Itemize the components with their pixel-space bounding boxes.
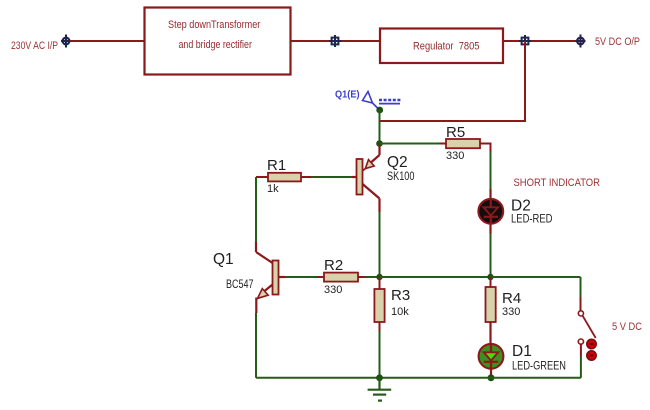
resistor R2	[317, 257, 365, 296]
svg-text:330: 330	[502, 306, 520, 318]
switch SW1	[578, 311, 595, 344]
wire input to transformer box	[70, 40, 144, 42]
label SHORT INDICATOR	[514, 177, 601, 189]
svg-text:R3: R3	[391, 287, 410, 304]
node Q1(E) dot	[376, 107, 383, 114]
resistor R3	[374, 277, 410, 332]
switch branch wire down	[580, 277, 582, 311]
wire R2 to junction	[365, 276, 380, 278]
svg-text:5 V DC: 5 V DC	[612, 321, 642, 333]
svg-text:1k: 1k	[267, 183, 279, 195]
wire Q1 emitter down to ground rail	[255, 313, 257, 378]
LED D1 LED-GREEN	[479, 344, 504, 375]
svg-text:LED-GREEN: LED-GREEN	[512, 361, 566, 373]
junction dot D1 to ground rail	[488, 374, 495, 381]
resistor R5	[439, 124, 491, 162]
resistor R1	[256, 157, 311, 195]
wire R1 to Q2 base	[311, 176, 352, 178]
svg-text:R4: R4	[502, 290, 521, 307]
svg-text:SHORT INDICATOR: SHORT INDICATOR	[514, 177, 601, 189]
label 5 V DC	[612, 321, 642, 333]
svg-text:330: 330	[446, 150, 464, 162]
label 5V DC O/P	[595, 36, 640, 48]
wire junction to R5	[380, 143, 440, 145]
svg-text:10k: 10k	[391, 306, 409, 318]
svg-text:SK100: SK100	[387, 171, 415, 183]
wire junction to D2/R4 junction	[380, 276, 491, 278]
svg-text:Q1: Q1	[213, 251, 234, 268]
wire regulator to output terminal	[503, 40, 577, 42]
svg-text:R5: R5	[446, 124, 465, 141]
junction marker after regulator	[519, 35, 531, 47]
transistor Q2 SK100	[352, 146, 380, 199]
junction dot at Q2 emitter / R5	[376, 140, 383, 147]
junction dot D2/R4	[487, 274, 493, 280]
resistor R4	[486, 277, 522, 345]
block Regulator 7805	[380, 29, 503, 64]
connector dots 5V DC	[587, 339, 596, 360]
wire R5 down to D2	[490, 152, 492, 189]
terminal 5V DC output	[576, 35, 586, 48]
label Q1 BC547	[213, 251, 254, 291]
junction dot ground rail at R3	[376, 374, 383, 381]
svg-text:BC547: BC547	[226, 279, 254, 291]
svg-text:D1: D1	[512, 343, 532, 360]
wire Q2 collector down to base rail	[378, 199, 380, 277]
svg-text:Regulator 7805: Regulator 7805	[413, 41, 480, 53]
svg-text:330: 330	[324, 284, 342, 296]
svg-text:D2: D2	[511, 198, 531, 215]
ground	[368, 378, 392, 401]
label D2	[511, 198, 553, 226]
switch lower wire	[580, 344, 582, 378]
wire D2 to lower junction	[490, 234, 492, 277]
svg-text:R2: R2	[324, 257, 343, 274]
LED D2 LED-RED	[478, 189, 503, 234]
svg-text:and bridge rectifier: and bridge rectifier	[179, 39, 253, 51]
svg-text:Step downTransformer: Step downTransformer	[168, 19, 261, 31]
block Step down Transformer and bridge rectifier	[145, 8, 291, 75]
transistor Q1 BC547	[256, 261, 285, 314]
svg-text:LED-RED: LED-RED	[511, 214, 553, 226]
label Q1(E)	[335, 89, 360, 100]
label 230V AC I/P	[11, 40, 58, 52]
wire R3 to ground rail	[379, 332, 381, 378]
wire Q1 base to R2	[285, 276, 317, 278]
svg-text:230V AC I/P: 230V AC I/P	[11, 40, 58, 52]
terminal 230V AC input	[61, 35, 71, 48]
wire R1 left down to Q1 collector	[256, 177, 273, 263]
wire from output junction down and left to Q1(E) node	[380, 41, 525, 121]
tag symbol Q1(E)	[363, 92, 380, 111]
junction dot R2/R3/Q2	[376, 274, 382, 280]
ground rail	[256, 377, 581, 379]
wire junction to switch branch	[491, 276, 581, 278]
wire transformer box to regulator	[291, 40, 380, 42]
svg-text:Q1(E): Q1(E)	[335, 89, 360, 100]
label D1	[512, 343, 566, 373]
wire node down to collector junction	[379, 110, 381, 144]
svg-text:Q2: Q2	[387, 154, 408, 171]
tag dashed marker	[379, 100, 401, 104]
label Q2 SK100	[387, 154, 415, 183]
junction marker between transformer and regulator	[329, 35, 341, 47]
svg-text:5V DC O/P: 5V DC O/P	[595, 36, 640, 48]
svg-text:R1: R1	[267, 157, 286, 174]
